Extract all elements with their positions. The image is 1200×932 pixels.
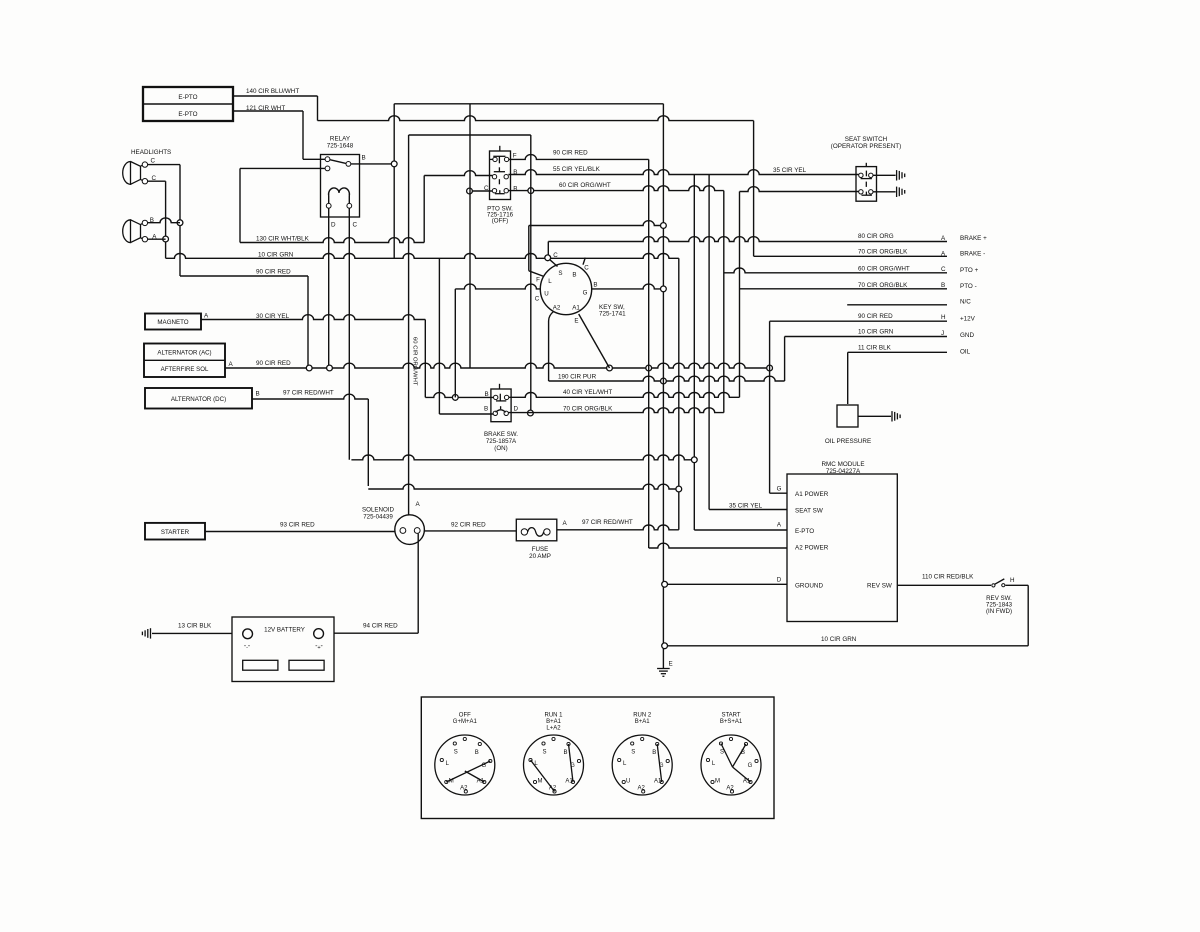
- svg-text:SEAT SW: SEAT SW: [795, 508, 823, 515]
- svg-text:70 CIR ORG/BLK: 70 CIR ORG/BLK: [858, 249, 908, 256]
- svg-text:C: C: [941, 266, 946, 273]
- wire E-PTO row: [694, 529, 787, 531]
- node junction 190pur net104: [661, 378, 667, 384]
- ground seat bottom: [896, 187, 898, 197]
- starter: [145, 523, 205, 540]
- svg-text:80 CIR ORG: 80 CIR ORG: [858, 233, 894, 240]
- battery 12V: [232, 617, 334, 682]
- magneto box: [145, 314, 201, 330]
- svg-text:FUSE: FUSE: [532, 546, 549, 553]
- svg-text:“+”: “+”: [316, 645, 323, 651]
- wire 10 CIR GRN drop: [678, 258, 680, 530]
- wire 80 CIR ORG row: [548, 237, 947, 242]
- wire GROUND row: [665, 583, 787, 585]
- wire GND row: [785, 336, 947, 338]
- battery terminals: [243, 629, 253, 639]
- svg-text:90 CIR RED: 90 CIR RED: [858, 313, 893, 320]
- svg-text:HEADLIGHTS: HEADLIGHTS: [131, 149, 171, 156]
- svg-text:B: B: [563, 750, 567, 756]
- wire pto+ drop: [723, 191, 725, 413]
- wire key F row: [529, 221, 664, 226]
- wire 40 CIR YEL/WHT row: [509, 392, 740, 397]
- wire rev sw arm: [995, 579, 1005, 584]
- svg-text:G: G: [659, 763, 664, 769]
- wire 13 CIR BLK row: [152, 632, 232, 634]
- wire 30 CIR YEL drop: [424, 320, 426, 398]
- node junction key C on 10grn: [545, 255, 551, 261]
- svg-text:92 CIR RED: 92 CIR RED: [451, 522, 486, 529]
- svg-text:E-PTO: E-PTO: [178, 94, 197, 101]
- svg-text:SOLENOID: SOLENOID: [362, 507, 395, 514]
- svg-text:E: E: [574, 318, 578, 325]
- wire relay coil C row: [351, 455, 694, 460]
- svg-text:B: B: [475, 750, 479, 756]
- brake switch 725-1857A: [491, 389, 511, 422]
- svg-text:60 CIR ORG/WHT: 60 CIR ORG/WHT: [559, 182, 611, 189]
- svg-text:90 CIR RED: 90 CIR RED: [256, 269, 291, 276]
- svg-text:11 CIR BLK: 11 CIR BLK: [858, 345, 892, 352]
- svg-text:60 CIR ORG/WHT: 60 CIR ORG/WHT: [412, 337, 418, 386]
- wire 55 CIR YEL/BLK / 35 CIR YEL row: [508, 170, 858, 175]
- svg-text:20 AMP: 20 AMP: [529, 553, 551, 560]
- node junction headlight B: [177, 220, 183, 226]
- svg-text:C: C: [535, 296, 540, 303]
- wire 40 CIR YEL/WHT west row: [425, 393, 493, 398]
- wire key B row: [592, 284, 664, 289]
- wire 70 CIR ORG/BLK brake- row: [754, 255, 947, 257]
- wire headlight B wire: [148, 218, 180, 223]
- wire key C riser: [547, 242, 549, 258]
- wire seat gnd wire 2: [873, 191, 896, 193]
- wire 70 row west: [439, 413, 493, 415]
- svg-text:(OFF): (OFF): [492, 218, 509, 225]
- wire 97 CIR RED/WHT fuse row: [557, 525, 679, 530]
- headlight lamp 2: [123, 220, 141, 243]
- svg-text:RELAY: RELAY: [330, 136, 351, 143]
- pto switch 725-1716: [490, 151, 511, 200]
- wire seat row2: [740, 187, 859, 192]
- svg-text:B: B: [941, 282, 945, 289]
- wire 10 CIR GRN bottom row: [665, 645, 1029, 647]
- svg-text:97 CIR RED/WHT: 97 CIR RED/WHT: [283, 390, 334, 397]
- wire 94 CIR RED row: [334, 632, 418, 634]
- svg-text:“-”: “-”: [244, 645, 250, 651]
- svg-text:E-PTO: E-PTO: [178, 111, 197, 118]
- svg-text:60 CIR ORG/WHT: 60 CIR ORG/WHT: [858, 266, 910, 273]
- wire solenoid battery drop: [417, 534, 419, 634]
- svg-text:RUN 1: RUN 1: [544, 713, 563, 719]
- wire headlight C1 drop: [179, 165, 181, 276]
- svg-text:A1 POWER: A1 POWER: [795, 491, 829, 498]
- svg-text:C: C: [151, 158, 156, 165]
- svg-text:H: H: [1010, 577, 1015, 584]
- wire relay arm: [330, 160, 346, 164]
- svg-text:35 CIR YEL: 35 CIR YEL: [773, 167, 807, 174]
- wire SEAT SW row: [709, 509, 787, 511]
- svg-text:94 CIR RED: 94 CIR RED: [363, 623, 398, 630]
- wire 97 CIR RED/WHT alt row: [252, 394, 368, 399]
- rev switch 725-1843: [992, 584, 995, 587]
- svg-text:13 CIR BLK: 13 CIR BLK: [178, 623, 212, 630]
- svg-text:OFF: OFF: [459, 713, 471, 719]
- wire relay lower contact west: [240, 167, 325, 169]
- wire key U row: [455, 284, 541, 289]
- ground E: [657, 668, 670, 670]
- seat switch: [856, 167, 877, 202]
- svg-text:SEAT SWITCH: SEAT SWITCH: [845, 136, 888, 143]
- svg-text:S: S: [558, 270, 562, 277]
- connector E-PTO (double box): [143, 87, 233, 121]
- node junction A1 diag: [607, 365, 613, 371]
- fuse box: [516, 519, 557, 541]
- wire 130 CIR WHT/BLK row: [240, 238, 424, 243]
- wire relay lower west drop: [239, 168, 241, 242]
- svg-text:A1: A1: [743, 779, 751, 785]
- svg-text:35 CIR YEL: 35 CIR YEL: [729, 503, 763, 510]
- svg-text:90 CIR RED: 90 CIR RED: [553, 150, 588, 157]
- wire 60 CIR ORG/WHT pto+ row: [724, 268, 947, 273]
- svg-text:OIL: OIL: [960, 349, 971, 356]
- svg-text:110 CIR RED/BLK: 110 CIR RED/BLK: [922, 574, 974, 581]
- svg-text:OIL PRESSURE: OIL PRESSURE: [825, 438, 871, 445]
- ground seat top: [896, 170, 898, 180]
- svg-text:B: B: [484, 406, 488, 413]
- svg-text:G: G: [777, 486, 782, 493]
- wire key C2 link: [583, 258, 585, 265]
- svg-text:L: L: [548, 278, 552, 285]
- wire net 470 riser: [469, 104, 471, 368]
- wire 90 CIR RED headlights drop: [307, 276, 309, 368]
- svg-text:A2 POWER: A2 POWER: [795, 545, 829, 552]
- wire relay coil D drop: [328, 208, 330, 368]
- svg-text:(ON): (ON): [494, 445, 507, 452]
- wire oil drop: [847, 352, 849, 404]
- svg-text:725-1857A: 725-1857A: [486, 438, 517, 445]
- svg-text:A1: A1: [572, 305, 580, 312]
- svg-text:START: START: [721, 713, 740, 719]
- svg-text:S: S: [631, 750, 635, 756]
- svg-text:40 CIR YEL/WHT: 40 CIR YEL/WHT: [563, 389, 612, 396]
- svg-text:GND: GND: [960, 332, 974, 339]
- wire 140 CIR BLU/WHT a: [233, 95, 318, 97]
- svg-text:N/C: N/C: [960, 299, 971, 306]
- wire key C link: [548, 258, 558, 267]
- svg-text:A2: A2: [460, 786, 468, 792]
- svg-text:M: M: [449, 779, 454, 785]
- wire brake- drop: [753, 121, 755, 257]
- wire pto- drop: [739, 192, 741, 398]
- svg-text:190 CIR PUR: 190 CIR PUR: [558, 374, 597, 381]
- wire pto C west row: [470, 190, 493, 192]
- svg-text:A2: A2: [726, 786, 734, 792]
- wire rev to corner: [1006, 584, 1029, 586]
- key switch 725-1741: [540, 263, 591, 314]
- svg-text:B+A1: B+A1: [635, 719, 651, 725]
- svg-text:10 CIR GRN: 10 CIR GRN: [258, 252, 294, 259]
- node junction 530 on 70row: [528, 410, 534, 416]
- svg-text:D: D: [514, 406, 519, 413]
- svg-text:ALTERNATOR (DC): ALTERNATOR (DC): [171, 396, 226, 403]
- svg-text:70 CIR ORG/BLK: 70 CIR ORG/BLK: [563, 406, 613, 413]
- wire 70 CIR ORG/BLK row: [508, 408, 723, 413]
- key position OFF: [435, 735, 495, 795]
- ground battery: [150, 628, 152, 638]
- wire 11 CIR BLK row: [848, 351, 947, 353]
- node junction 60row taps: [528, 188, 534, 194]
- svg-text:725-1741: 725-1741: [599, 310, 626, 317]
- alternator ac box: [144, 344, 225, 378]
- svg-text:725-04227A: 725-04227A: [826, 468, 861, 475]
- node junction headlight A: [163, 236, 169, 242]
- oil pressure sender: [837, 405, 858, 427]
- node junction gnd row: [662, 581, 668, 587]
- svg-text:G: G: [748, 763, 753, 769]
- wire rev drop: [1027, 585, 1029, 646]
- svg-text:G: G: [583, 290, 588, 297]
- svg-text:97 CIR RED/WHT: 97 CIR RED/WHT: [582, 519, 633, 526]
- svg-text:S: S: [720, 750, 724, 756]
- wire 30 CIR YEL row: [201, 315, 425, 320]
- svg-text:B+A1: B+A1: [546, 719, 562, 725]
- svg-text:PTO +: PTO +: [960, 267, 979, 274]
- svg-text:B: B: [652, 750, 656, 756]
- wire 90 CIR RED pto F drop: [648, 159, 650, 548]
- svg-text:B: B: [485, 391, 489, 398]
- svg-text:C: C: [353, 222, 358, 229]
- svg-text:F: F: [536, 276, 540, 283]
- wire net 135 link row: [530, 135, 532, 413]
- battery cell plates: [243, 660, 278, 670]
- wire gnd J riser: [784, 337, 786, 382]
- svg-text:725-04439: 725-04439: [363, 514, 393, 521]
- wire 121 CIR WHT a: [233, 110, 303, 112]
- wire net 663 long vertical: [662, 104, 664, 668]
- svg-text:RUN 2: RUN 2: [633, 713, 652, 719]
- wire key F link: [529, 271, 544, 277]
- svg-text:10 CIR GRN: 10 CIR GRN: [821, 636, 857, 643]
- brake switch contacts: [494, 395, 498, 399]
- svg-text:MAGNETO: MAGNETO: [157, 319, 188, 326]
- headlight lamp 1: [123, 162, 141, 185]
- svg-text:PTO -: PTO -: [960, 283, 977, 290]
- wire key U drop: [454, 289, 456, 398]
- wire relay coil C drop: [348, 208, 350, 460]
- RMC module 725-04227A: [787, 474, 897, 622]
- wire pto B west drop: [423, 176, 425, 243]
- node junction +12V riser: [767, 365, 773, 371]
- key position RUN 2: [612, 735, 672, 795]
- ground oil: [891, 411, 893, 421]
- svg-text:10 CIR GRN: 10 CIR GRN: [858, 329, 894, 336]
- key position panel: [421, 697, 774, 819]
- solenoid 725-04439: [395, 515, 425, 545]
- node junction key U drop: [452, 395, 458, 401]
- svg-text:S: S: [454, 750, 458, 756]
- wire 97 CIR RED/WHT drop: [367, 399, 369, 486]
- wire SEAT SW drop: [708, 175, 710, 510]
- node junction 10grn 490: [676, 486, 682, 492]
- node junction 90red/ptoF: [646, 365, 652, 371]
- node junction relay B: [391, 161, 397, 167]
- wire 190 CIR PUR row: [549, 376, 785, 381]
- svg-text:D: D: [331, 222, 336, 229]
- wire 121 CIR WHT to relay: [303, 158, 326, 160]
- node junction keyF 663: [661, 223, 667, 229]
- wire headlight A wire: [148, 238, 166, 240]
- wire 90 CIR RED / 190 CIR PUR row: [225, 363, 770, 368]
- svg-text:G: G: [570, 763, 575, 769]
- svg-text:B: B: [572, 272, 576, 279]
- wire key A2 drop: [549, 312, 554, 382]
- svg-text:F: F: [513, 153, 517, 160]
- wire A1 POWER row: [770, 492, 787, 494]
- svg-text:REV SW: REV SW: [867, 583, 892, 590]
- wire +12V / A1 POWER riser: [769, 321, 771, 493]
- node junction 10grn bottom: [662, 643, 668, 649]
- svg-text:BRAKE -: BRAKE -: [960, 251, 985, 258]
- svg-text:M: M: [715, 779, 720, 785]
- wire headlight C1 wire: [148, 164, 180, 166]
- wire oil gnd wire: [858, 415, 891, 417]
- wire 140 CIR BLU/WHT b: [318, 116, 754, 121]
- wire headlight C2 wire: [148, 180, 166, 182]
- svg-text:GROUND: GROUND: [795, 583, 823, 590]
- svg-text:+12V: +12V: [960, 316, 976, 323]
- node junction pto C: [467, 188, 473, 194]
- wire net 490 row: [368, 484, 679, 489]
- wire relay arm to node: [351, 163, 394, 165]
- wire E-PTO drop: [693, 175, 695, 531]
- wire A2 POWER row: [649, 543, 787, 548]
- svg-text:90 CIR RED: 90 CIR RED: [256, 360, 291, 367]
- svg-text:STARTER: STARTER: [161, 529, 190, 536]
- svg-text:70 CIR ORG/BLK: 70 CIR ORG/BLK: [858, 282, 908, 289]
- svg-text:A1: A1: [654, 779, 662, 785]
- wire net 104 row: [394, 103, 663, 105]
- node junction 90red/relay coil D: [327, 365, 333, 371]
- wire 92 CIR RED row: [424, 530, 516, 532]
- relay coil: [329, 188, 340, 196]
- wire N/C row: [847, 304, 947, 306]
- wire 70 CIR ORG/BLK pto- row: [740, 288, 948, 290]
- svg-text:93 CIR RED: 93 CIR RED: [280, 522, 315, 529]
- svg-text:55 CIR YEL/BLK: 55 CIR YEL/BLK: [553, 166, 601, 173]
- svg-text:E-PTO: E-PTO: [795, 528, 814, 535]
- wire 90 CIR RED headlights row: [180, 275, 308, 277]
- wire 121 CIR WHT jog: [302, 111, 304, 159]
- svg-text:C: C: [553, 252, 558, 259]
- svg-text:U: U: [626, 779, 630, 785]
- svg-text:E: E: [669, 661, 673, 668]
- wire +12V row: [770, 320, 947, 322]
- wire 10 GRN brake drop: [438, 258, 440, 414]
- wire net 135 row: [409, 134, 531, 136]
- key position RUN 1: [524, 735, 584, 795]
- wire 90 CIR RED pto F row: [509, 155, 649, 160]
- svg-text:G+M+A1: G+M+A1: [453, 719, 478, 725]
- seat switch contacts: [859, 173, 863, 177]
- relay switch contacts: [325, 157, 330, 162]
- wire headlight C2 drop: [165, 181, 167, 258]
- svg-text:ALTERNATOR (AC): ALTERNATOR (AC): [157, 350, 211, 357]
- svg-text:B: B: [256, 391, 260, 398]
- node junction keyB 663: [661, 286, 667, 292]
- svg-text:A1: A1: [477, 779, 485, 785]
- svg-text:H: H: [941, 314, 946, 321]
- relay 725-1648: [321, 155, 360, 218]
- svg-text:A2: A2: [638, 786, 646, 792]
- svg-text:D: D: [777, 577, 782, 584]
- svg-text:C: C: [584, 265, 589, 272]
- wire relay B node riser: [393, 104, 395, 258]
- wire key E diagonal: [579, 314, 610, 368]
- wire 10 CIR GRN row: [166, 254, 679, 259]
- node junction eptodrop 459: [691, 457, 697, 463]
- wire seat gnd wire 1: [873, 174, 896, 176]
- svg-text:B: B: [593, 282, 597, 289]
- svg-text:L+A2: L+A2: [546, 726, 561, 732]
- key position START: [701, 735, 761, 795]
- svg-text:(OPERATOR PRESENT): (OPERATOR PRESENT): [831, 143, 901, 150]
- svg-text:U: U: [544, 291, 548, 298]
- node junction 90red/headlight: [306, 365, 312, 371]
- wire 93 CIR RED row: [205, 531, 395, 533]
- svg-text:B: B: [362, 155, 366, 162]
- svg-text:12V BATTERY: 12V BATTERY: [264, 627, 305, 634]
- svg-text:A1: A1: [565, 779, 573, 785]
- wire 60 CIR ORG/WHT solenoid drop: [408, 135, 410, 515]
- svg-text:B+S+A1: B+S+A1: [720, 719, 743, 725]
- svg-text:S: S: [542, 750, 546, 756]
- svg-text:G: G: [481, 763, 486, 769]
- wire 60 CIR ORG/WHT row: [508, 186, 723, 191]
- wire 140 CIR BLU/WHT jog: [317, 96, 319, 121]
- wire pto B west row: [424, 171, 492, 176]
- svg-text:BRAKE SW.: BRAKE SW.: [484, 431, 518, 438]
- alternator dc box: [145, 388, 252, 409]
- svg-text:A2: A2: [549, 786, 557, 792]
- svg-text:(IN FWD): (IN FWD): [986, 608, 1012, 615]
- wire key F riser: [528, 226, 530, 271]
- pto switch contacts: [493, 157, 497, 161]
- svg-text:AFTERFIRE SOL: AFTERFIRE SOL: [161, 366, 209, 373]
- svg-text:BRAKE +: BRAKE +: [960, 235, 987, 242]
- svg-text:130 CIR WHT/BLK: 130 CIR WHT/BLK: [256, 236, 310, 243]
- wire REV SW row: [897, 584, 991, 586]
- svg-text:M: M: [538, 779, 543, 785]
- svg-text:725-1648: 725-1648: [327, 143, 354, 150]
- svg-text:A2: A2: [553, 305, 561, 312]
- svg-text:140 CIR BLU/WHT: 140 CIR BLU/WHT: [246, 88, 299, 95]
- svg-text:J: J: [941, 330, 944, 337]
- svg-text:B: B: [741, 750, 745, 756]
